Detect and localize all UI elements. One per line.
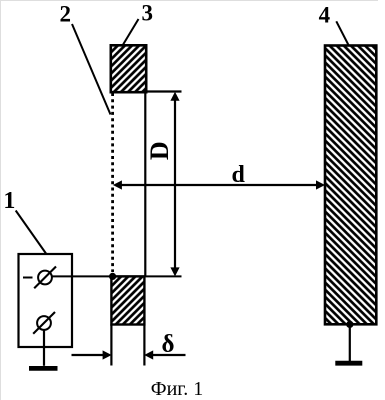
ground (screen 4)	[335, 361, 362, 366]
svg-text:δ: δ	[162, 331, 175, 358]
ground (box 1)	[29, 366, 58, 371]
svg-text:d: d	[232, 162, 246, 188]
wire from screen 4 to ground	[349, 324, 351, 361]
diaphragm 3 lower extension right edge	[143, 325, 145, 366]
source unit box 1	[19, 254, 73, 347]
svg-text:D: D	[145, 141, 174, 160]
minus sign inside box 1	[23, 277, 33, 279]
svg-text:1: 1	[3, 188, 15, 214]
wire from box 1 to node on axis	[52, 275, 182, 277]
svg-text:Фиг. 1: Фиг. 1	[151, 378, 203, 400]
diaphragm 3 top block	[111, 45, 146, 92]
svg-text:4: 4	[319, 3, 331, 28]
svg-text:3: 3	[142, 1, 154, 26]
wire from bottom meter to ground	[43, 330, 45, 366]
screen 4	[325, 46, 376, 325]
node on screen 4 bottom	[346, 321, 353, 328]
diaphragm 3 bottom block	[111, 276, 144, 324]
leader line for label 1	[16, 211, 46, 254]
leader line for label 2	[72, 24, 111, 115]
dotted axis line 2	[111, 93, 114, 272]
leader line for label 4	[336, 21, 349, 46]
svg-text:2: 2	[60, 2, 72, 27]
dimension d line with arrows	[113, 180, 325, 189]
diaphragm 3 lower extension left edge	[110, 325, 112, 366]
leader line for label 3	[123, 19, 139, 46]
meter symbol (crossed circle) bottom	[33, 312, 55, 334]
diaphragm 3 right edge	[144, 92, 146, 277]
dimension delta right line	[144, 350, 185, 359]
dimension delta left line	[72, 350, 112, 359]
meter symbol (crossed circle) top	[34, 267, 56, 289]
node (junction dot)	[109, 273, 116, 280]
dimension D extension line top	[146, 90, 181, 92]
dimension D line with arrows	[170, 92, 179, 277]
